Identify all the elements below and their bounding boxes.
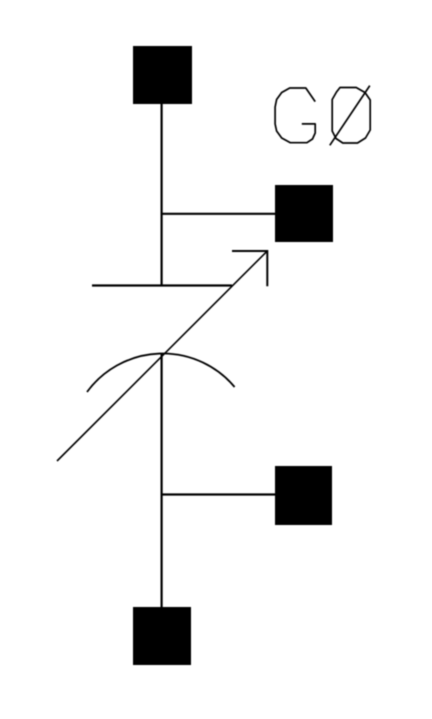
pad square P3 (lower right terminal)	[275, 466, 332, 525]
wire: tap to lower-right pad	[162, 493, 275, 495]
wire: top pad to capacitor top plate	[161, 104, 163, 286]
arrowhead barbs	[232, 251, 267, 286]
label G0: zero slash	[330, 86, 370, 146]
capacitor C1 top plate (straight)	[92, 284, 232, 286]
wire: curved plate to bottom pad	[161, 354, 163, 608]
wire: tap to upper-right pad	[162, 213, 275, 215]
pad square P1 (top terminal)	[133, 46, 192, 104]
pad square P2 (upper right terminal)	[275, 185, 333, 242]
label G0: letter G	[275, 88, 315, 143]
capacitor C1 bottom plate (curved arc)	[87, 354, 235, 392]
pad square P4 (bottom terminal)	[133, 607, 191, 665]
label G0: slashed zero O	[332, 88, 370, 144]
adjustment arrow shaft (variable capacitor)	[57, 251, 267, 461]
